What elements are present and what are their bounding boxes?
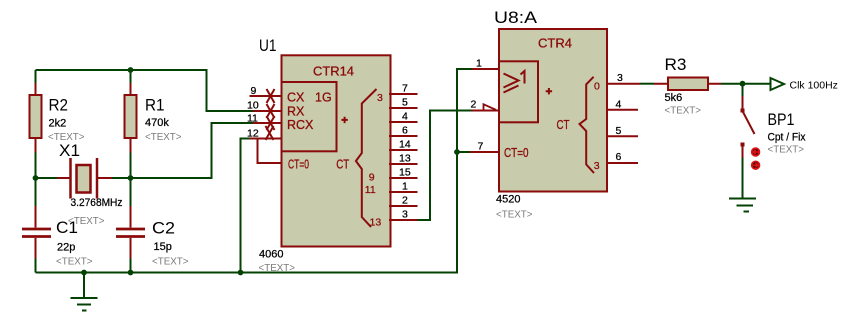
U1 pin 6 (389, 125, 418, 137)
svg-text:CT=0: CT=0 (504, 146, 529, 160)
svg-text:Cpt / Fix: Cpt / Fix (768, 132, 806, 144)
U8 CT brace (580, 77, 595, 173)
svg-text:CTR4: CTR4 (538, 37, 572, 51)
crystal X1 (57, 158, 112, 199)
svg-text:7: 7 (402, 83, 408, 95)
wire C2 top (130, 178, 132, 209)
svg-text:14: 14 (399, 139, 411, 151)
svg-text:2k2: 2k2 (49, 118, 67, 130)
wire R2 top stub (35, 70, 37, 84)
svg-text:13: 13 (370, 217, 382, 229)
U1 CT brace (356, 89, 377, 227)
junction U8 pin7 (454, 149, 460, 155)
U8 pin 2 (471, 99, 500, 111)
chip label plus U8 (546, 88, 552, 94)
wire U1 pin3 to U8 pin2 (418, 111, 472, 221)
U1 pin 15 (389, 167, 418, 179)
U1 oscillator inner box (282, 82, 337, 151)
svg-text:<TEXT>: <TEXT> (152, 256, 189, 268)
svg-text:11: 11 (365, 184, 376, 196)
svg-text:<TEXT>: <TEXT> (259, 262, 296, 274)
svg-text:13: 13 (399, 153, 411, 165)
svg-text:3.2768MHz: 3.2768MHz (71, 197, 123, 209)
wire top rail R2/R1 to U1 pin 10 (36, 70, 254, 111)
U1 pin 10 (247, 100, 281, 119)
svg-text:C1: C1 (56, 218, 78, 237)
junction rail U1 pin12 (238, 270, 244, 276)
svg-text:1: 1 (402, 181, 408, 193)
svg-text:<TEXT>: <TEXT> (145, 131, 182, 143)
wire junction down to BP1 (742, 84, 744, 96)
svg-text:3: 3 (594, 160, 600, 172)
wire R2 bottom to C1 (35, 178, 37, 209)
IC U8:A 4520 body (499, 29, 607, 192)
svg-text:22p: 22p (57, 242, 75, 254)
svg-text:11: 11 (247, 113, 258, 125)
U1 pin 12 (247, 126, 281, 140)
svg-text:CT: CT (336, 158, 349, 172)
U1 pin 9 (250, 85, 282, 103)
resistor R1 (125, 83, 137, 153)
wire crystal row to U1 pin 11 (36, 123, 254, 178)
svg-text:3: 3 (617, 72, 623, 84)
svg-text:<TEXT>: <TEXT> (665, 105, 702, 117)
U8 pin 6 (607, 151, 638, 163)
junction crystal left (33, 175, 39, 181)
resistor R3 (654, 78, 721, 91)
svg-text:<TEXT>: <TEXT> (768, 144, 805, 156)
svg-text:5: 5 (616, 125, 622, 137)
svg-text:1G: 1G (315, 91, 332, 105)
wire C1 bottom to rail (35, 256, 37, 273)
svg-text:1: 1 (476, 58, 482, 70)
svg-text:2: 2 (402, 195, 408, 207)
junction crystal right / C2 top (128, 175, 134, 181)
wire R2 bottom to crystal row (35, 152, 37, 179)
svg-text:5k6: 5k6 (665, 92, 683, 104)
svg-text:CTR14: CTR14 (313, 65, 354, 79)
wire U8 pin 7 branch (457, 151, 470, 153)
U1 pin 7 (389, 83, 418, 95)
U8 pin 5 (607, 125, 638, 137)
svg-text:U8:A: U8:A (494, 8, 538, 27)
svg-text:3: 3 (377, 92, 383, 104)
svg-text:9: 9 (369, 172, 375, 184)
wire R1 bottom to crystal row (130, 152, 132, 179)
svg-text:4520: 4520 (496, 194, 520, 206)
svg-text:5: 5 (402, 97, 408, 109)
junction R1 top (128, 67, 134, 73)
IC U1 4060 body (282, 55, 391, 246)
svg-text:2: 2 (471, 99, 477, 111)
junction rail C2 (128, 270, 134, 276)
resistor R2 (30, 83, 42, 153)
output terminal arrow Clk 100Hz (771, 78, 785, 90)
svg-text:4: 4 (616, 99, 622, 111)
svg-text:4: 4 (402, 111, 408, 123)
svg-text:CT: CT (557, 118, 570, 132)
U8 inner box (499, 61, 538, 122)
wire bottom ground rail (36, 69, 472, 273)
svg-text:CX: CX (287, 91, 305, 105)
U8 pin 7 (470, 141, 499, 153)
svg-text:0: 0 (594, 81, 600, 93)
U1 pin 2 (389, 195, 418, 207)
svg-text:R1: R1 (145, 96, 165, 115)
svg-text:6: 6 (616, 151, 622, 163)
U8 pin 3 (607, 72, 640, 84)
wire BP1 bottom to ground (742, 158, 744, 199)
wire R1 top stub (130, 70, 132, 84)
capacitor C1 (22, 206, 51, 259)
U8 pin 4 (607, 99, 638, 111)
svg-text:15: 15 (399, 167, 411, 179)
svg-text:470k: 470k (145, 117, 169, 129)
U1 pin 5 (389, 97, 418, 109)
capacitor C2 (116, 206, 145, 259)
svg-text:15p: 15p (154, 241, 172, 253)
wire C2 bottom to rail (130, 256, 132, 273)
U1 pin 4 (389, 111, 418, 123)
svg-text:3: 3 (402, 209, 408, 221)
svg-text:<TEXT>: <TEXT> (56, 256, 93, 268)
svg-text:10: 10 (247, 100, 259, 112)
svg-text:RCX: RCX (287, 118, 314, 132)
svg-text:RX: RX (287, 105, 305, 119)
junction R3 output / BP1 (740, 81, 746, 87)
ground symbol right (729, 199, 756, 212)
U1 pin12 internal CT=0 path (258, 139, 282, 164)
U1 pin 13 (389, 153, 418, 165)
ground symbol left (71, 273, 98, 311)
chip symbol >=1 (504, 71, 525, 93)
BP1 actuator dot 1 (752, 148, 760, 156)
svg-text:U1: U1 (259, 36, 277, 55)
chip label plus (341, 117, 347, 123)
svg-text:R2: R2 (49, 96, 69, 115)
switch BP1 (741, 96, 755, 158)
svg-text:4060: 4060 (259, 249, 283, 261)
U1 pin 14 (389, 139, 418, 151)
svg-text:7: 7 (478, 141, 484, 153)
wire R3 to output terminal (721, 83, 770, 85)
svg-text:<TEXT>: <TEXT> (496, 209, 533, 221)
svg-text:9: 9 (251, 85, 257, 97)
svg-text:C2: C2 (152, 219, 175, 238)
wire U8 pin3 to R3 (640, 83, 654, 85)
junction rail ground (81, 270, 87, 276)
svg-text:6: 6 (402, 125, 408, 137)
U1 pin 3 (389, 209, 418, 221)
BP1 actuator dot 2 (752, 161, 760, 169)
svg-text:R3: R3 (665, 55, 687, 74)
wire U1 pin12 to rail (241, 139, 250, 273)
svg-text:12: 12 (247, 128, 259, 140)
U8 pin 1 (472, 58, 500, 70)
svg-text:BP1: BP1 (768, 110, 795, 129)
svg-text:CT=0: CT=0 (288, 158, 309, 172)
svg-text:Clk 100Hz: Clk 100Hz (790, 80, 838, 92)
svg-text:X1: X1 (59, 141, 80, 160)
U1 pin 1 (389, 181, 418, 193)
U1 pin 11 (247, 113, 281, 131)
